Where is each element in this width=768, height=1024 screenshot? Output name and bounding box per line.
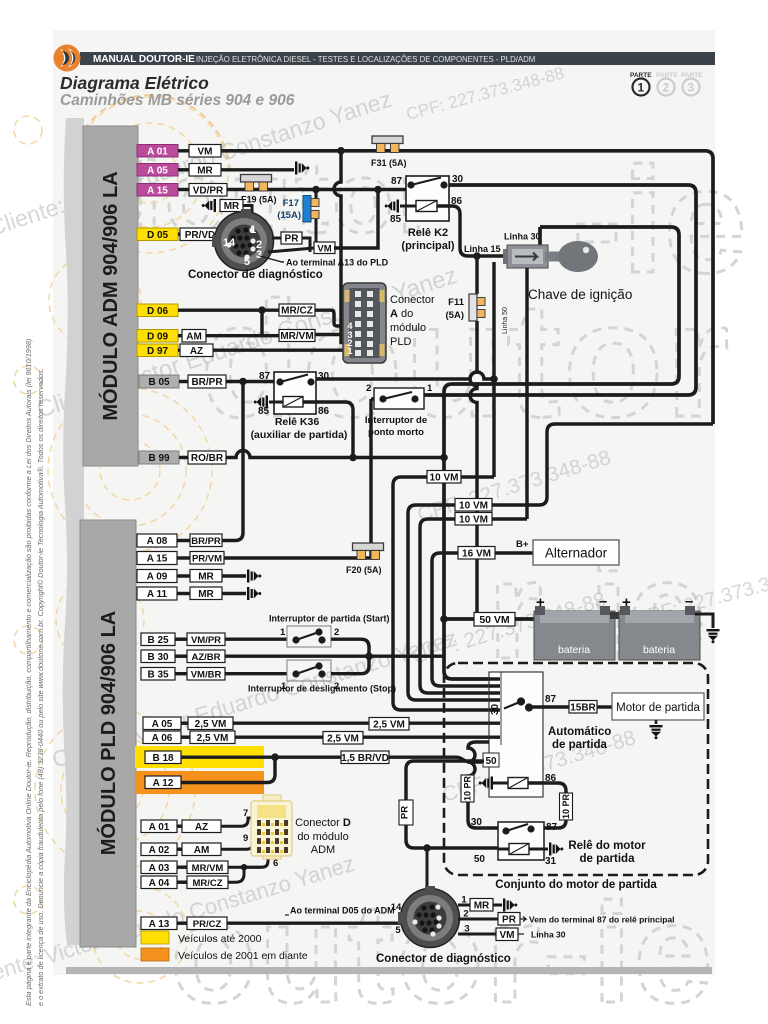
svg-text:BR/PR: BR/PR [191,377,223,388]
wire 86 down to starter relay 87 [528,783,566,828]
wire label VM (F17 out) [314,242,335,254]
svg-text:1: 1 [250,224,256,236]
svg-text:de partida: de partida [552,739,608,751]
wire node down to bottom diagnostic connector [426,848,429,890]
svg-text:B 05: B 05 [148,377,170,388]
legend swatch orange [141,948,169,961]
wire F11 down to 50VM node, hopping two rows [470,321,477,619]
svg-text:–: – [685,593,693,610]
node A15/VM-box riser [374,186,382,194]
parte indicators [630,72,703,96]
svg-text:VM/BR: VM/BR [191,669,222,680]
ground (A05 MR) [295,162,309,175]
svg-text:1: 1 [427,383,433,394]
junction node B05/A08 riser [239,378,247,386]
svg-text:D 09: D 09 [147,331,169,342]
svg-text:2: 2 [334,627,339,638]
wire label RO/BR [188,451,226,464]
ignition switch cylinder [503,245,548,268]
pin B99 (ADM) [139,451,188,464]
svg-text:(5A): (5A) [446,310,464,321]
svg-text:AZ/BR: AZ/BR [191,652,220,663]
automatic starter switch contact [504,699,532,711]
wire label 15BR [569,701,597,714]
pin A08 (PLD) [137,534,190,547]
doutor-ie orange logo [54,45,81,72]
module ADM 904/906 LA body [83,126,138,466]
neutral switch (interruptor de ponto morto) [366,383,433,409]
svg-text:B 99: B 99 [148,453,170,464]
svg-text:Conector de diagnóstico: Conector de diagnóstico [376,953,511,965]
svg-text:Automático: Automático [548,726,611,738]
svg-text:MANUAL DOUTOR-IE: MANUAL DOUTOR-IE [93,54,195,65]
svg-text:3: 3 [688,81,695,95]
fuse F19 (5A) on VD/PR bus [241,175,272,192]
svg-text:50 VM: 50 VM [479,614,510,626]
wire label VM/BR [187,668,225,681]
svg-text:B 35: B 35 [147,669,169,680]
ground (bottom MR) [503,899,517,912]
pin A09 (PLD) [137,570,190,583]
wire start switch out to junction [331,639,369,656]
ground (diagnostic MR) [202,199,216,212]
wire K36 30 to Linha50 riser [316,372,494,379]
pin A12 (PLD) [145,776,181,789]
ignition key [545,241,598,272]
svg-text:2,5 VM: 2,5 VM [327,733,359,744]
svg-text:B 25: B 25 [147,635,169,646]
node v5 / RO-BR [440,454,448,462]
svg-text:Conjunto do motor de partida: Conjunto do motor de partida [495,879,657,891]
svg-text:bateria: bateria [558,644,590,656]
wire 50 terminal to PR loop and starter relay 50 [406,761,498,849]
battery 1 [534,593,615,660]
wire solenoid trigger from box to 10PR riser, hopping rows [468,742,498,828]
pin B18 (PLD) [145,751,181,764]
node A03/A04 [241,864,247,870]
pin A01 (PLD lower) [141,820,182,833]
wire label BR/PR [188,375,226,388]
wire K2 30 to right riser down to neutral switch row [424,185,696,395]
svg-text:A 13: A 13 [149,919,170,930]
svg-text:de partida: de partida [580,853,636,865]
wire MR/CZ to conector A pin 4 [315,310,344,326]
ground (motor) [655,720,658,724]
wire AM to MR/VM, with branch from D06 junction [206,310,279,336]
ground (battery) [707,629,720,643]
stop switch [281,660,339,692]
wire 16VM row from alternator B+ to bundle riser v4 [432,553,533,686]
pin A01 (ADM) [137,145,189,158]
wire label MR/CZ (A04) [187,876,228,889]
wire B25 to start switch [225,637,287,640]
svg-text:87: 87 [545,694,557,705]
svg-text:ADM: ADM [311,844,335,856]
wire A15 VD/PR bus to relay K2 pin 87 [227,188,406,191]
svg-text:AM: AM [194,845,210,856]
svg-text:2,5 VM: 2,5 VM [195,719,227,730]
node start/stop junction [365,652,373,660]
svg-text:9: 9 [243,833,248,844]
wire A04 up to junction and into conector D pin 6 [228,856,268,882]
relay K2 body [406,176,449,221]
wire label AM (A02) [182,843,221,856]
wire label PR (vertical, loop) [399,800,413,825]
svg-text:D 05: D 05 [147,230,169,241]
wire A01 AZ to conector D pin 7 [221,818,253,826]
wire label PR (bottom connector) [498,913,520,926]
starter motor relay box (Relê do motor de partida) [498,822,544,860]
svg-text:Diagrama Elétrico: Diagrama Elétrico [60,73,209,93]
svg-text:Linha 15: Linha 15 [464,244,501,254]
wire label 2,5 VM (A06 a) [190,731,235,744]
svg-text:Chave de ignição: Chave de ignição [528,287,632,302]
pin A12 highlight band (vehicles 2001 on) [135,771,264,794]
fuse F17 (15A) blue [303,196,319,223]
pin A15 (ADM) [137,184,189,197]
svg-text:Alternador: Alternador [545,546,608,561]
svg-text:MR: MR [197,165,213,176]
starter relay switch contact [503,824,533,834]
wire label 2,5 VM (A05 b) [369,718,409,731]
wire D05 PR/VD to diagnostic connector pin 14 [220,232,232,235]
pin A13 (PLD) [141,917,187,930]
wire label MR (A09) [190,570,222,583]
svg-text:2: 2 [366,383,371,394]
svg-text:RO/BR: RO/BR [191,453,224,464]
svg-text:AZ: AZ [195,822,208,833]
svg-text:A 03: A 03 [149,863,170,874]
wire label AM [182,330,206,343]
svg-text:A 02: A 02 [149,845,170,856]
svg-text:Veículos até 2000: Veículos até 2000 [178,933,262,945]
wire A08 up-riser joining B05 node [222,382,243,541]
wire label PR/VD [180,228,220,241]
svg-text:85: 85 [390,214,402,225]
svg-text:10 PR: 10 PR [463,775,473,801]
diagnostic connector (top) [212,209,274,271]
wire A15 PR/VM to neutral-switch riser [224,556,371,559]
ground (K36 85) [254,396,268,409]
svg-text:Esta página é parte integrante: Esta página é parte integrante da Encicl… [24,339,33,1006]
wire ignition second terminal down to 10VM row3 [525,268,528,519]
svg-text:MR: MR [474,900,490,911]
junction D06/D09 node [258,306,266,314]
wire K36 85 to ground [269,401,283,404]
svg-text:PR: PR [502,914,517,925]
conector D body [251,795,292,859]
wire A02 AM to conector D pin 9 [221,844,252,849]
wire label 16 VM [458,547,495,560]
wire label VM/PR [187,633,225,646]
start switch [280,626,339,647]
svg-text:MR: MR [198,589,214,600]
wire riser from VM bus node hopping VD/PR bus, down to conector A pin 2 [334,151,344,343]
wire bottom connector pin3 to VM [458,933,496,936]
svg-text:MÓDULO ADM 904/906 LA: MÓDULO ADM 904/906 LA [98,171,122,420]
svg-text:Linha 30: Linha 30 [531,930,566,940]
svg-text:+: + [536,594,545,611]
svg-text:2,5 VM: 2,5 VM [373,719,405,730]
svg-text:AM: AM [186,331,202,342]
ground (solenoid coil left) [479,777,493,790]
wire label 50 VM [474,613,515,627]
fuse F20 (5A) on PR/VM bus [353,543,384,560]
svg-text:(auxiliar de partida): (auxiliar de partida) [251,429,348,441]
content panel background [53,30,715,975]
svg-text:MR: MR [224,201,240,212]
wire ignition Linha50 down, branch to K36-30 and 10VM row [492,262,495,477]
wire label VM (bottom connector) [496,928,518,941]
wire label MR (diagnostic) [220,200,243,213]
svg-text:PR: PR [285,234,300,245]
svg-text:A do: A do [390,308,413,320]
wire connector pin2 to PR label [272,237,281,240]
terminal 50 box [483,753,499,767]
svg-text:5: 5 [244,256,250,268]
wire label BR/PR (A08) [190,534,222,547]
K36 switch contact [277,375,313,385]
wire K2 86 to Linha 15 [437,206,508,256]
svg-text:Relê do motor: Relê do motor [568,840,646,852]
svg-text:Interruptor de partida (Start): Interruptor de partida (Start) [269,614,390,624]
svg-text:87: 87 [391,176,403,187]
wire connector pin3 to VM label [268,248,314,252]
svg-text:F31 (5A): F31 (5A) [371,158,407,168]
wire 15BR to motor [597,705,612,708]
node PR loop / bottom connector [423,844,431,852]
battery 2 [619,593,700,660]
ground (A11) [247,587,261,600]
node K36-86 / RO/BR [349,454,357,462]
pin D97 (ADM) [137,344,180,357]
wire label 10 VM (row1) [427,471,461,484]
wire label PR (diagnostic) [281,232,302,245]
callout Ao terminal D05 do ADM [285,914,289,916]
wire bottom connector pin1 to MR [458,904,470,907]
battery interlink [610,612,624,619]
wire label MR/CZ [279,304,315,317]
node A15/F17 branch [312,186,320,194]
svg-text:MÓDULO PLD 904/906 LA: MÓDULO PLD 904/906 LA [96,611,120,856]
node v5 / 50VM [440,615,448,623]
wire 10VM row1 from Linha50 riser to bundle riser v1 [393,477,499,710]
svg-text:e o extrato de licença de uso.: e o extrato de licença de uso. Denuncie … [36,368,45,1006]
solenoid coil (automatic starter) [508,778,528,789]
svg-text:Relê K36: Relê K36 [275,416,320,428]
wire PR to drop [302,238,310,252]
wire label VD/PR [189,184,227,197]
svg-text:1: 1 [280,627,286,638]
svg-text:Ao terminal A13 do PLD: Ao terminal A13 do PLD [286,258,389,268]
wire B99 RO/BR to K36 coil riser, hop over B05 riser [226,451,444,458]
svg-text:6: 6 [273,858,278,869]
svg-text:MR/CZ: MR/CZ [281,306,313,317]
svg-text:F19 (5A): F19 (5A) [241,195,277,205]
svg-text:A 06: A 06 [152,733,173,744]
starter assembly dashed enclosure [444,663,708,875]
svg-text:Conector de diagnóstico: Conector de diagnóstico [188,269,323,281]
svg-text:Vem do terminal 87 do relê pri: Vem do terminal 87 do relê principal [529,915,675,925]
svg-text:2,5 VM: 2,5 VM [197,733,229,744]
svg-text:14: 14 [223,237,236,249]
wire label 10 PR (second, vertical) [560,793,573,820]
wire label MR [189,164,221,177]
svg-text:F20 (5A): F20 (5A) [346,565,382,575]
pin A11 (PLD) [137,587,190,600]
wire label 10 PR (vertical, riser) [461,775,474,802]
svg-text:D 97: D 97 [147,346,169,357]
svg-text:MR/VM: MR/VM [280,331,313,342]
svg-text:VM: VM [500,930,515,941]
svg-text:PR/VD: PR/VD [185,230,216,241]
svg-text:Conector D: Conector D [295,817,351,829]
wire bottom connector pin2 to PR [458,918,498,921]
wire A09 MR to ground [222,574,246,577]
svg-text:MR/VM: MR/VM [192,863,224,874]
svg-text:50: 50 [474,854,486,865]
callout Ao terminal A13 do PLD [260,256,284,262]
svg-text:(15A): (15A) [277,210,301,221]
header dark bar [80,52,715,65]
pin A15 (PLD) [137,552,190,565]
svg-text:30: 30 [490,703,501,715]
fuse F31 (5A) [372,136,403,153]
pin B30 (PLD) [141,650,187,663]
pin A02 (PLD lower) [141,843,182,856]
svg-text:A 08: A 08 [147,536,168,547]
wire VM bus from A01 through F31 to right riser [221,151,713,424]
svg-text:86: 86 [318,406,330,417]
svg-text:15BR: 15BR [570,702,596,713]
wire A03 to junction [228,866,262,869]
svg-text:A 01: A 01 [149,822,170,833]
svg-text:Linha 30: Linha 30 [504,232,541,242]
wire F11 feed from Linha15 node [475,256,478,294]
pin A06 (PLD) [143,731,190,744]
wire B35 to stop switch [225,672,287,675]
wire 10VM row3 from ignition riser x527 to bundle riser v3 [420,519,527,693]
svg-text:1,5 BR/VD: 1,5 BR/VD [341,753,389,764]
wire F17 riser from A15 node to VM label [315,190,318,243]
svg-text:(principal): (principal) [401,240,455,252]
wire label MR (bottom connector) [470,899,493,912]
svg-text:10 VM: 10 VM [459,514,488,525]
svg-text:F17: F17 [283,198,299,209]
svg-text:14: 14 [391,902,402,913]
wire coil to 31 ground [498,848,509,851]
svg-text:Interruptor de: Interruptor de [365,415,427,426]
pin A03 (PLD lower) [141,861,187,874]
starter relay coil [509,844,529,855]
svg-text:B 18: B 18 [152,753,174,764]
svg-text:PR: PR [400,806,411,819]
svg-text:87: 87 [259,371,271,382]
node B18/A12 [271,753,279,761]
pin A04 (PLD lower) [141,876,187,889]
svg-text:16 VM: 16 VM [462,548,491,559]
svg-text:bateria: bateria [643,644,675,656]
svg-text:–: – [599,593,607,610]
svg-text:Relê K2: Relê K2 [408,227,448,239]
wire tips into 30 bus column [489,679,500,737]
wire label MR/VM (A03) [187,861,228,874]
svg-text:A 05: A 05 [147,165,168,176]
wire A11 MR to ground [222,592,246,595]
wire label AZ [180,344,213,357]
pin A05 (PLD) [143,717,188,730]
conector A body [343,283,386,363]
svg-text:A 01: A 01 [147,146,168,157]
wire label VM [189,145,221,158]
svg-text:Veículos de 2001 em diante: Veículos de 2001 em diante [178,950,308,962]
svg-text:AZ: AZ [190,346,203,357]
K2 coil [416,201,437,212]
svg-text:PR/CZ: PR/CZ [193,919,222,930]
wire AZ to conector A pin 1 [213,348,344,351]
svg-text:VM/PR: VM/PR [191,635,221,646]
legend swatch yellow [141,931,169,944]
wire label AZ (A01) [182,820,221,833]
wire 1,5 BR/VD to starter 50 terminal [275,757,484,762]
wire battery2 negative to ground [695,614,713,628]
svg-text:A 15: A 15 [147,185,168,196]
svg-text:Conector: Conector [390,294,435,306]
callout Linha 30 (bottom) [518,933,524,935]
svg-text:A 05: A 05 [152,719,173,730]
ground (starter relay 31) [549,843,563,856]
pin B18 highlight band (vehicles up to 2000) [135,746,264,768]
svg-text:31: 31 [545,856,557,867]
svg-text:1: 1 [347,346,352,356]
node VM bus / F17 riser [337,147,345,155]
wire label MR/VM [279,330,315,343]
pin D06 (ADM) [137,304,178,317]
svg-text:3: 3 [256,249,262,261]
wire label 10 VM (row3) [455,513,492,526]
svg-text:10 VM: 10 VM [459,500,488,511]
wire K2 85 to ground [400,205,416,208]
svg-text:MR/CZ: MR/CZ [192,878,222,889]
svg-text:VD/PR: VD/PR [193,185,224,196]
node Linha15 / F11 [473,252,481,260]
svg-text:do módulo: do módulo [297,831,348,843]
svg-text:módulo: módulo [390,322,426,334]
callout Vem do terminal 87 do relê principal [520,917,526,922]
wire K36 86 down to RO/BR bus [303,402,353,458]
wire MR box to connector shell [243,206,252,219]
svg-text:50: 50 [485,756,497,767]
wire label 10 VM (row2) [455,499,492,512]
pin B05 (ADM) [139,375,188,388]
svg-text:10 VM: 10 VM [430,472,459,483]
ground (A09) [247,570,261,583]
svg-text:F11: F11 [448,297,465,308]
svg-text:VM: VM [317,243,331,254]
K36 coil [283,397,303,408]
wire 10VM row2 from F31 riser via x547 to bundle riser v2 [408,424,713,700]
wire 50VM from bundle riser v5 to battery [444,617,536,621]
svg-text:A 12: A 12 [153,778,174,789]
wire A05 MR to ground [221,168,294,171]
svg-text:A 11: A 11 [147,589,168,600]
wire label MR (A11) [190,587,222,600]
svg-text:87: 87 [546,822,558,833]
wire A05 2,5VM bus to automatic starter [233,721,499,724]
wire 87 to 15BR [532,705,569,708]
starter motor box [612,693,704,720]
wire label PR/VM [190,552,224,565]
